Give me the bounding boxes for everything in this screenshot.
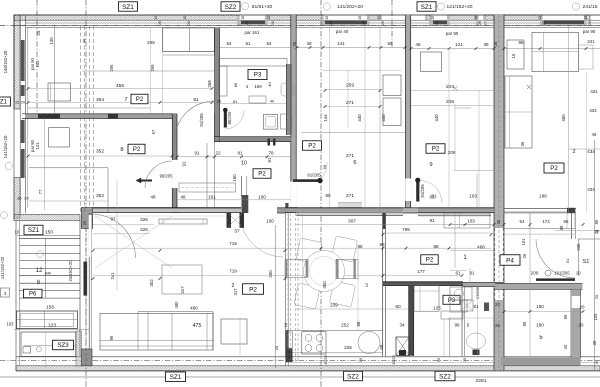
svg-text:15: 15 (183, 16, 187, 20)
svg-text:P2: P2 (133, 146, 141, 153)
svg-text:95: 95 (518, 40, 524, 45)
svg-text:96: 96 (454, 323, 460, 328)
svg-text:91: 91 (182, 161, 187, 166)
svg-text:P6: P6 (29, 292, 37, 298)
svg-text:10: 10 (15, 230, 20, 235)
dark door arrow unit8 (140, 180, 152, 182)
axis label SZ2 bottom-right (435, 371, 455, 381)
svg-text:317: 317 (233, 288, 238, 296)
shaft dashed x89.5 (89, 26, 91, 208)
thin line x302.5 (302, 213, 304, 330)
axis label SZ2 top (221, 2, 240, 12)
svg-text:SZ1: SZ1 (28, 227, 40, 234)
label P2 lower-middle (421, 255, 439, 265)
svg-text:235: 235 (576, 243, 581, 251)
svg-text:103: 103 (469, 194, 477, 199)
svg-text:103: 103 (467, 219, 475, 224)
dim line y309 kitchen row (296, 308, 408, 310)
unit7 strip line x54.5 (54, 26, 56, 114)
axis line vertical x86 (85, 0, 87, 387)
svg-text:480: 480 (190, 306, 198, 311)
svg-text:141: 141 (337, 41, 345, 46)
svg-text:204: 204 (446, 84, 454, 90)
svg-text:141/152+20: 141/152+20 (3, 135, 8, 158)
svg-text:88: 88 (357, 244, 363, 249)
room6 wardrobe lower (383, 98, 401, 126)
svg-text:39: 39 (559, 225, 564, 230)
svg-text:20: 20 (580, 305, 585, 310)
svg-text:par 40: par 40 (336, 29, 349, 34)
svg-text:96: 96 (109, 335, 114, 340)
shaft dashed x93.5 (93, 26, 95, 208)
room9 desk (421, 52, 442, 72)
door handle circle (545, 270, 551, 276)
corridor line x214.5 (214, 142, 216, 207)
kitchen counter lower-left (289, 330, 384, 332)
svg-text:81: 81 (237, 150, 243, 155)
svg-text:88: 88 (356, 321, 361, 326)
svg-text:480: 480 (174, 301, 179, 309)
room9 vline x449 (448, 48, 450, 207)
svg-text:P2: P2 (136, 96, 144, 103)
svg-text:P2: P2 (249, 286, 257, 293)
axis label SZ1 top (119, 2, 138, 12)
svg-text:130: 130 (49, 37, 54, 45)
svg-text:90/205: 90/205 (160, 174, 173, 179)
svg-text:10: 10 (241, 161, 247, 167)
arc room6 door (321, 162, 328, 179)
svg-text:302: 302 (149, 279, 154, 287)
label P3 lower (443, 295, 460, 304)
svg-text:45/20: 45/20 (392, 355, 396, 365)
svg-text:20: 20 (187, 21, 191, 25)
svg-text:239: 239 (330, 303, 338, 308)
corridor line x241.5 (241, 176, 243, 196)
svg-text:25: 25 (83, 221, 87, 225)
stairwell steps (20, 237, 81, 239)
svg-text:P3: P3 (254, 72, 262, 79)
svg-text:85/205: 85/205 (227, 111, 232, 124)
arc bathroom inner door (225, 111, 244, 130)
svg-text:352: 352 (96, 193, 104, 199)
room6 thin vline x329.5 (329, 26, 331, 207)
svg-text:719: 719 (229, 269, 237, 274)
door arc entrance right unit (536, 239, 575, 278)
svg-text:5: 5 (467, 323, 470, 328)
svg-text:350: 350 (322, 281, 327, 289)
svg-text:P2: P2 (308, 143, 316, 150)
door arc lower-left unit entry (92, 214, 136, 258)
svg-text:48: 48 (151, 194, 156, 199)
svg-text:57: 57 (234, 229, 240, 234)
svg-text:59: 59 (387, 41, 393, 46)
window jamb blocks top wall (237, 15, 240, 25)
left fixtures small right-unit hall (476, 174, 478, 208)
corridor line x207 (206, 143, 208, 207)
room6 line x348 (347, 71, 349, 129)
outer boundary lines (14, 14, 600, 16)
svg-text:40: 40 (267, 82, 272, 87)
svg-text:20: 20 (579, 323, 584, 328)
svg-text:20: 20 (362, 21, 366, 25)
door opening room 6 wall gap (291, 182, 297, 208)
svg-text:20: 20 (24, 196, 29, 201)
svg-text:78: 78 (268, 150, 274, 155)
svg-text:26: 26 (217, 99, 222, 104)
axis label SZ1 bottom (166, 372, 186, 382)
kitchen south-unit wall y281.5-285.5 (383, 282, 463, 286)
door leaf room 9 (416, 179, 419, 202)
svg-text:20: 20 (594, 229, 599, 234)
svg-text:97: 97 (111, 217, 116, 222)
middle wall segment x285-403 (285, 208, 403, 213)
label P6 (23, 289, 42, 298)
dashed line x295.5 (295, 213, 297, 362)
cooktop with burners (302, 332, 326, 354)
label P2 unit7 (131, 94, 148, 104)
shaft dashed x84.5 (84, 26, 86, 213)
svg-text:25: 25 (274, 345, 279, 350)
vline x455 right unit (454, 213, 456, 268)
wall x172-177 vertical upper (172, 114, 177, 160)
svg-text:54: 54 (226, 41, 232, 46)
bathroom east wall x286.5-291 (287, 64, 292, 135)
kitchen sink circle (358, 332, 380, 354)
svg-text:271: 271 (346, 153, 354, 159)
perspective X lines lower-left room (95, 216, 172, 268)
small circle SZ3 room (36, 347, 41, 352)
loggia sill band below wall x296-491 (296, 213, 403, 216)
svg-text:90: 90 (36, 279, 41, 284)
shaft dashed x80.5 (80, 26, 82, 213)
svg-text:22: 22 (215, 150, 221, 155)
svg-text:123: 123 (48, 323, 56, 329)
svg-text:81: 81 (469, 271, 475, 276)
svg-text:141/152+20: 141/152+20 (0, 256, 5, 279)
svg-text:20: 20 (271, 21, 275, 25)
svg-text:259: 259 (346, 83, 354, 89)
svg-text:24/15/2+20: 24/15/2+20 (68, 260, 73, 282)
svg-text:68: 68 (379, 344, 384, 349)
bathroom fixture east (281, 114, 292, 129)
line y71 unit7 (82, 70, 214, 72)
svg-text:241: 241 (587, 39, 595, 44)
svg-text:1: 1 (463, 254, 467, 261)
svg-text:440: 440 (434, 114, 439, 122)
axis label Z1 left edge (0, 97, 11, 106)
svg-text:SZ2: SZ2 (439, 373, 451, 380)
axis label SZ1 top-right (417, 2, 436, 12)
corridor closet long (179, 183, 236, 192)
svg-text:840: 840 (45, 272, 51, 276)
svg-text:40: 40 (82, 38, 87, 43)
label P3 bathroom top (248, 70, 267, 80)
toilet lower right (467, 333, 486, 349)
svg-text:26: 26 (292, 41, 297, 46)
svg-text:15: 15 (463, 358, 467, 362)
svg-text:86: 86 (594, 219, 599, 224)
interior face line x27.8 (27, 28, 29, 208)
balcony door threshold room6 (338, 203, 362, 208)
svg-text:174: 174 (542, 219, 550, 224)
svg-text:91: 91 (429, 218, 435, 223)
stair center divider (45, 238, 47, 298)
svg-text:431: 431 (590, 89, 598, 94)
party wall between units x291-296 (291, 15, 296, 213)
svg-text:95: 95 (563, 314, 568, 319)
door arc bathroom (175, 101, 215, 141)
svg-text:81: 81 (233, 99, 238, 104)
svg-text:206: 206 (109, 64, 114, 72)
svg-text:141: 141 (35, 60, 40, 68)
room b east gray wall (572, 289, 581, 296)
svg-text:101: 101 (521, 238, 526, 246)
window frames in top wall (241, 21, 266, 25)
svg-text:2: 2 (572, 149, 575, 155)
svg-text:P4: P4 (506, 257, 514, 264)
svg-text:799: 799 (402, 227, 410, 232)
svg-text:121/152+20: 121/152+20 (447, 4, 473, 10)
svg-text:88: 88 (325, 193, 331, 199)
svg-text:160: 160 (232, 174, 237, 182)
top window band lines (14, 19, 600, 21)
washer in bathroom (264, 115, 278, 130)
svg-text:7: 7 (124, 97, 127, 103)
svg-text:25: 25 (522, 253, 527, 258)
svg-text:468: 468 (477, 245, 485, 250)
bathroom sink east (281, 83, 294, 96)
svg-text:307: 307 (348, 219, 356, 224)
svg-text:150: 150 (45, 230, 53, 236)
svg-text:15: 15 (358, 16, 362, 20)
room6 line y70.5 (323, 70, 401, 72)
party wall right x494-504 (494, 15, 504, 228)
axis line vertical x392 top stub (391, 0, 393, 47)
svg-text:200: 200 (531, 271, 539, 276)
svg-text:39: 39 (592, 340, 597, 345)
svg-text:100: 100 (266, 219, 274, 224)
svg-text:364: 364 (96, 97, 104, 103)
unit8 south line (29, 167, 108, 169)
svg-text:12: 12 (36, 268, 43, 274)
svg-text:158: 158 (46, 305, 54, 311)
main middle wall y207.5-212.5 segment west (93, 208, 241, 213)
svg-text:95: 95 (522, 321, 527, 326)
dim line y224.4 lower middle (296, 223, 491, 225)
svg-text:125: 125 (433, 306, 441, 311)
svg-text:20: 20 (576, 271, 581, 276)
arc room9 door (420, 181, 443, 204)
svg-text:51: 51 (565, 258, 570, 263)
svg-text:P3: P3 (448, 298, 456, 304)
svg-text:85: 85 (17, 197, 21, 201)
svg-text:161: 161 (208, 194, 216, 199)
label P2 room9 (426, 144, 445, 154)
svg-text:15: 15 (474, 16, 478, 20)
svg-text:48: 48 (181, 194, 186, 199)
label P2 corridor (253, 169, 271, 179)
svg-text:271: 271 (346, 193, 354, 199)
svg-text:77: 77 (38, 189, 43, 194)
SZ3 box area (21, 332, 76, 357)
sofa lower-left L-shape (100, 313, 213, 350)
lower-left unit west wall x89-91 (88, 213, 90, 366)
svg-text:180: 180 (536, 323, 544, 328)
svg-text:Z1: Z1 (0, 100, 8, 106)
bathroom vanity (219, 66, 227, 96)
kitchen west wall x382.5-385.5 (382, 213, 384, 356)
bathroom wc (249, 96, 266, 103)
axis line vertical x37 stub (36, 0, 38, 115)
svg-text:6: 6 (353, 160, 356, 166)
bathroom shelf (219, 59, 287, 67)
svg-text:par 90: par 90 (583, 29, 596, 34)
kitchen/bath divider wall x408.5-414 (409, 286, 414, 356)
room9 vline x479 (478, 90, 480, 207)
room2 divider x568.5 (568, 26, 570, 213)
svg-text:317: 317 (180, 286, 185, 294)
svg-text:61/61+20: 61/61+20 (252, 4, 273, 10)
sink right unit (441, 311, 463, 319)
vline x275 (274, 225, 276, 368)
svg-text:17/205: 17/205 (475, 286, 480, 299)
label SZ3 (53, 340, 74, 350)
square table lower-left (221, 319, 247, 344)
top axis markers and labels (241, 2, 248, 9)
label P4 (500, 255, 520, 266)
left wall window dark frames (21, 40, 25, 81)
left exterior wall hatched band lower (14, 178, 20, 219)
svg-text:20: 20 (245, 21, 249, 25)
svg-text:20: 20 (594, 294, 599, 299)
dashed line x298 (297, 213, 299, 362)
bathroom east wall x462-464.5 lower (461, 286, 463, 356)
svg-text:180: 180 (536, 304, 544, 309)
bottom exterior wall hatched band (16, 366, 600, 371)
svg-text:SZ1: SZ1 (421, 4, 433, 11)
svg-text:208: 208 (446, 99, 454, 105)
svg-text:352: 352 (96, 149, 104, 155)
lower-left unit east window band x285.5-288 (285, 213, 287, 366)
svg-text:90: 90 (359, 358, 363, 362)
svg-text:268: 268 (207, 80, 212, 88)
svg-text:20: 20 (588, 21, 592, 25)
svg-text:P2: P2 (426, 257, 434, 264)
svg-text:121: 121 (455, 42, 463, 47)
unit7 desk (48, 83, 71, 101)
svg-text:par 161: par 161 (245, 30, 260, 35)
vline x530 (529, 213, 531, 283)
svg-text:15: 15 (584, 16, 588, 20)
sideboard under wall (159, 219, 207, 224)
svg-text:141/202+20: 141/202+20 (337, 4, 363, 10)
svg-text:par 90: par 90 (446, 31, 459, 36)
svg-text:241/15: 241/15 (583, 4, 598, 10)
vline x455 upper (454, 104, 456, 170)
svg-text:98: 98 (564, 219, 569, 224)
small left edge box (1, 288, 10, 297)
svg-text:SZ3: SZ3 (57, 342, 69, 349)
middle wall gray pier x277-285 (277, 208, 285, 213)
svg-text:9: 9 (429, 162, 432, 168)
stair east line x80 (79, 221, 81, 357)
unit7/8 divider wall y113.5-118.5 (26, 114, 177, 119)
svg-text:16: 16 (511, 53, 516, 58)
room6 thin vline x380 (379, 26, 381, 213)
svg-text:86: 86 (233, 82, 238, 87)
svg-text:91/205: 91/205 (199, 113, 204, 127)
bathroom door leaf small (224, 109, 227, 128)
svg-text:40: 40 (563, 344, 568, 349)
room6 wardrobe upper (383, 75, 401, 96)
svg-text:15: 15 (538, 16, 542, 20)
middle wall window block x403-418 (403, 208, 418, 213)
svg-text:SZ2: SZ2 (347, 373, 359, 380)
svg-text:34: 34 (399, 323, 405, 328)
svg-text:91: 91 (193, 97, 199, 103)
fridge dark block (286, 349, 293, 363)
middle wall pier x241-249 (242, 195, 249, 213)
svg-text:45/20: 45/20 (324, 355, 328, 365)
washing machine dark (396, 337, 409, 356)
gray pier near stairs x81-93 (81, 208, 92, 229)
dashed line x288 (287, 213, 289, 362)
svg-text:40: 40 (270, 99, 275, 104)
svg-text:P2: P2 (550, 165, 558, 172)
svg-text:P2: P2 (432, 146, 440, 153)
svg-text:67: 67 (151, 129, 156, 134)
thin line above divider wall (28, 107, 150, 109)
bottom small gray pier near stairs (82, 349, 93, 366)
svg-text:105: 105 (593, 313, 598, 321)
axis line vertical x321 (320, 0, 322, 387)
door opening lower-left west wall (89, 215, 92, 257)
svg-text:475: 475 (193, 323, 202, 329)
svg-text:60: 60 (395, 304, 401, 310)
closet edge ext left (162, 52, 164, 114)
svg-text:15: 15 (15, 101, 19, 105)
svg-text:54: 54 (520, 219, 525, 224)
svg-text:2281: 2281 (476, 378, 487, 384)
svg-text:20: 20 (381, 21, 385, 25)
svg-text:196: 196 (539, 194, 547, 199)
svg-text:SZ1: SZ1 (170, 374, 182, 381)
corridor south wall right unit y283-289.5 (495, 283, 583, 289)
svg-text:61: 61 (245, 41, 251, 46)
svg-text:20: 20 (542, 21, 546, 25)
svg-text:15: 15 (431, 16, 435, 20)
svg-text:719: 719 (229, 241, 237, 246)
svg-text:49: 49 (592, 132, 597, 137)
svg-text:49: 49 (306, 41, 312, 46)
unit8 divider x108 (107, 168, 109, 213)
svg-text:15: 15 (377, 16, 381, 20)
middle wall thin segment x504-576 (loggia door band) (504, 207, 576, 209)
svg-text:103: 103 (7, 322, 15, 327)
stair exterior wall hatched band (14, 215, 80, 221)
bottom dimension line (0, 376, 600, 378)
room1 window sill box (444, 213, 490, 228)
entry sill box right unit (504, 213, 576, 228)
stair dark rail x83-87 (84, 262, 88, 296)
interior face line y27.6 (26, 27, 600, 29)
svg-text:434: 434 (587, 149, 595, 154)
svg-text:148/152+20: 148/152+20 (3, 50, 8, 73)
label P2 room6 (303, 141, 322, 151)
svg-text:20: 20 (435, 21, 439, 25)
svg-text:434: 434 (587, 187, 595, 192)
left exterior wall hatched band (14, 15, 20, 109)
